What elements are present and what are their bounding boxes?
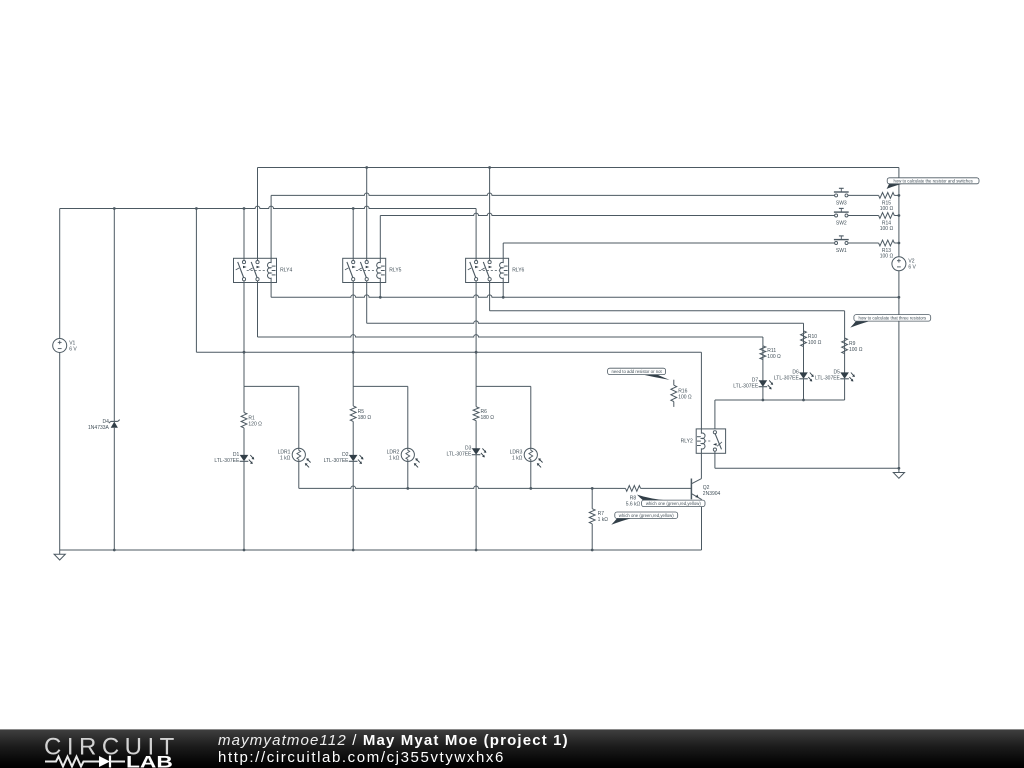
- wire RLY2coil-Q2collector: [700, 453, 702, 478]
- wire LDR3 bottom: [530, 461, 532, 488]
- junction: [591, 549, 594, 552]
- callout how-to-calculate-resistor-switches: [887, 178, 979, 189]
- wire R9 top stub: [844, 311, 846, 338]
- junction: [898, 296, 901, 299]
- svg-text:RLY2: RLY2: [681, 438, 693, 444]
- junction: [762, 399, 765, 402]
- wire D6 down: [803, 379, 805, 400]
- wire V2 column top: [898, 168, 900, 257]
- junction: [406, 487, 409, 490]
- wire branch1 top: [244, 385, 299, 387]
- resistor R10: [801, 331, 822, 347]
- junction: [195, 207, 198, 210]
- resistor R9: [842, 338, 863, 354]
- svg-text:2N3904: 2N3904: [703, 491, 721, 497]
- svg-text:1 kΩ: 1 kΩ: [280, 456, 291, 462]
- junction: [243, 351, 246, 354]
- wire R7 top: [591, 488, 593, 508]
- junction: [898, 214, 901, 217]
- junction: [502, 296, 505, 299]
- junction: [365, 166, 368, 169]
- svg-text:RLY6: RLY6: [512, 268, 524, 274]
- wire RLY6 pole1 bottom: [475, 281, 477, 387]
- wire RLY6 pole2 top: [489, 168, 491, 261]
- wire R11-D7: [762, 360, 764, 381]
- svg-text:1N4733A: 1N4733A: [88, 425, 110, 431]
- wire RLY2pole-ground: [715, 467, 899, 469]
- ground: [54, 550, 65, 560]
- wire RLY5 coil top: [379, 216, 381, 259]
- wire RLY6 coil bottom: [502, 283, 504, 298]
- resistor R14: [848, 213, 899, 233]
- junction: [352, 549, 355, 552]
- junction: [898, 242, 901, 245]
- junction: [898, 194, 901, 197]
- resistor R15: [848, 193, 899, 213]
- transistor Q2: [691, 479, 720, 500]
- resistor R7: [589, 509, 608, 524]
- resistor R13: [848, 240, 899, 260]
- wire RLY6coil-SW1: [503, 242, 834, 244]
- svg-text:100 Ω: 100 Ω: [880, 206, 894, 212]
- svg-text:need to add resistor or not: need to add resistor or not: [612, 369, 663, 374]
- callout which-one-1: [637, 495, 705, 507]
- footer bar: [0, 729, 1024, 768]
- svg-text:100 Ω: 100 Ω: [808, 340, 822, 346]
- CircuitLab logo: [0, 730, 200, 768]
- svg-text:1 kΩ: 1 kΩ: [512, 456, 523, 462]
- junction: [113, 549, 116, 552]
- svg-text:100 Ω: 100 Ω: [880, 226, 894, 232]
- junction: [529, 487, 532, 490]
- svg-text:6 V: 6 V: [69, 346, 77, 352]
- wire D1 cathode down: [243, 461, 245, 550]
- junction: [352, 207, 355, 210]
- wire net-pole1common: [196, 351, 701, 353]
- wire RLY5pole2-R10: [367, 321, 804, 323]
- wire RLY6pole2-R9: [490, 310, 845, 312]
- wire net-LDRcommon: [299, 486, 618, 488]
- LED D7: [733, 378, 773, 390]
- wire RLY5 pole1 bottom: [352, 281, 354, 387]
- zener diode D4: [88, 419, 120, 431]
- wire net-V1plus horizontal: [60, 206, 476, 208]
- junction: [243, 207, 246, 210]
- svg-text:which one (green,red,yellow): which one (green,red,yellow): [619, 513, 675, 518]
- wire R10-D6: [803, 347, 805, 373]
- svg-text:how to calculate that three re: how to calculate that three resistors: [859, 316, 927, 321]
- svg-text:LTL-307EE: LTL-307EE: [446, 452, 472, 458]
- LED D5: [815, 370, 855, 382]
- svg-text:120 Ω: 120 Ω: [248, 421, 262, 427]
- LED D6: [774, 370, 814, 382]
- svg-text:SW1: SW1: [836, 248, 847, 254]
- svg-text:LTL-307EE: LTL-307EE: [774, 376, 800, 382]
- wire net-SWtop horizontal: [258, 167, 899, 169]
- switch SW1: [834, 236, 849, 254]
- junction: [898, 467, 901, 470]
- wire branch2 top: [353, 385, 408, 387]
- svg-text:RLY4: RLY4: [280, 268, 292, 274]
- resistor R6: [473, 386, 494, 448]
- voltage source V2: [892, 257, 917, 271]
- LDR LDR3: [510, 448, 543, 467]
- wire Q2 emitter down: [701, 499, 703, 550]
- wire D2 cathode down: [352, 461, 354, 550]
- wire LDR3 top: [530, 386, 532, 448]
- relay RLY2: [681, 429, 726, 453]
- svg-text:1 kΩ: 1 kΩ: [598, 517, 609, 523]
- svg-text:SW2: SW2: [836, 221, 847, 227]
- wire net-coilcommon: [271, 295, 899, 297]
- junction: [591, 487, 594, 490]
- svg-text:LTL-307EE: LTL-307EE: [214, 458, 240, 464]
- svg-text:100 Ω: 100 Ω: [767, 354, 781, 360]
- svg-text:SW3: SW3: [836, 200, 847, 206]
- svg-text:which one (green,red,yellow): which one (green,red,yellow): [646, 501, 702, 506]
- wire LDR2 bottom: [407, 461, 409, 488]
- wire RLY2pole-down: [714, 451, 716, 468]
- junction: [243, 549, 246, 552]
- wire RLY5 pole1 top: [352, 209, 354, 261]
- ground: [893, 468, 904, 478]
- wire D7 down: [762, 387, 764, 400]
- junction: [475, 549, 478, 552]
- LDR LDR2: [387, 448, 420, 467]
- svg-text:180 Ω: 180 Ω: [481, 415, 495, 421]
- junction: [802, 399, 805, 402]
- svg-text:6 V: 6 V: [908, 265, 916, 271]
- wire RLY5 coil bottom: [379, 283, 381, 298]
- wire D4 bottom: [113, 428, 115, 550]
- wire V1 bottom: [59, 353, 61, 551]
- wire RLY4pole2-R11: [258, 335, 763, 337]
- wire V1 top: [59, 209, 61, 339]
- wire V2 column bottom: [898, 271, 900, 469]
- relay RLY6: [466, 258, 525, 282]
- relay RLY4: [234, 258, 293, 282]
- svg-text:how to calculate the resistor: how to calculate the resistor and switch…: [893, 179, 972, 184]
- svg-text:LAB: LAB: [126, 753, 173, 768]
- svg-text:LTL-307EE: LTL-307EE: [815, 376, 841, 382]
- relay RLY5: [343, 258, 402, 282]
- wire RLY4 pole2 top: [257, 168, 259, 261]
- wire Eline-RLY2coil: [700, 352, 702, 429]
- switch SW3: [834, 188, 849, 206]
- LED D3: [446, 446, 486, 458]
- wire LEDrow-RLY2pole: [714, 400, 716, 429]
- wire D4 top: [113, 209, 115, 422]
- svg-text:5.6 kΩ: 5.6 kΩ: [626, 501, 641, 507]
- wire D5 down: [844, 379, 846, 400]
- LED D2: [324, 452, 364, 464]
- resistor R1: [241, 386, 262, 455]
- wire R9-D5: [844, 354, 846, 373]
- svg-text:LTL-307EE: LTL-307EE: [324, 458, 350, 464]
- wire D5-D7 cathode line: [715, 399, 845, 401]
- wire RLY4 coil bottom: [270, 283, 272, 298]
- resistor R5: [350, 386, 371, 455]
- wire D3 cathode down: [475, 455, 477, 550]
- wire RLY4 coil top: [270, 195, 272, 258]
- wire RLY6 pole1 top: [475, 209, 477, 261]
- junction: [352, 351, 355, 354]
- wire RLY6 pole2 bottom: [489, 281, 491, 311]
- wire R7 bottom: [591, 524, 593, 550]
- switch SW2: [834, 208, 849, 226]
- svg-text:180 Ω: 180 Ω: [358, 415, 372, 421]
- wire E branch: [195, 209, 197, 353]
- svg-text:100 Ω: 100 Ω: [880, 254, 894, 260]
- callout need-to-add-resistor: [608, 368, 670, 380]
- wire RLY5 pole2 bottom: [366, 281, 368, 324]
- wire LDR1 top: [298, 386, 300, 448]
- wire branch3 top: [476, 385, 531, 387]
- LED D1: [214, 452, 254, 464]
- junction: [113, 207, 116, 210]
- wire RLY4 pole1 bottom: [243, 281, 245, 387]
- callout which-one-2: [611, 512, 677, 525]
- wire R11 top stub: [762, 337, 764, 346]
- wire LDR2 top: [407, 386, 409, 448]
- LDR LDR1: [278, 448, 311, 467]
- svg-text:1 kΩ: 1 kΩ: [389, 456, 400, 462]
- wire RLY4 pole1 top: [243, 209, 245, 261]
- svg-text:LTL-307EE: LTL-307EE: [733, 384, 759, 390]
- callout how-to-calculate-three-resistors: [850, 315, 930, 328]
- voltage source V1: [53, 339, 78, 353]
- wire RLY5 pole2 top: [366, 168, 368, 261]
- svg-text:100 Ω: 100 Ω: [849, 347, 863, 353]
- svg-text:RLY5: RLY5: [389, 268, 401, 274]
- wire RLY4 pole2 bottom: [257, 281, 259, 337]
- wire LDR1 bottom: [298, 461, 300, 488]
- resistor R11: [760, 346, 781, 360]
- junction: [475, 351, 478, 354]
- junction: [488, 166, 491, 169]
- wire R10 top stub: [803, 323, 805, 331]
- svg-text:100 Ω: 100 Ω: [678, 395, 692, 401]
- wire RLY6 coil top: [502, 243, 504, 258]
- wire RLY4coil-SW3: [271, 193, 835, 195]
- resistor R16: [671, 380, 692, 407]
- resistor R8: [618, 486, 692, 508]
- junction: [379, 296, 382, 299]
- wire RLY5coil-SW2: [380, 213, 834, 215]
- wire net-ground rail: [60, 549, 702, 551]
